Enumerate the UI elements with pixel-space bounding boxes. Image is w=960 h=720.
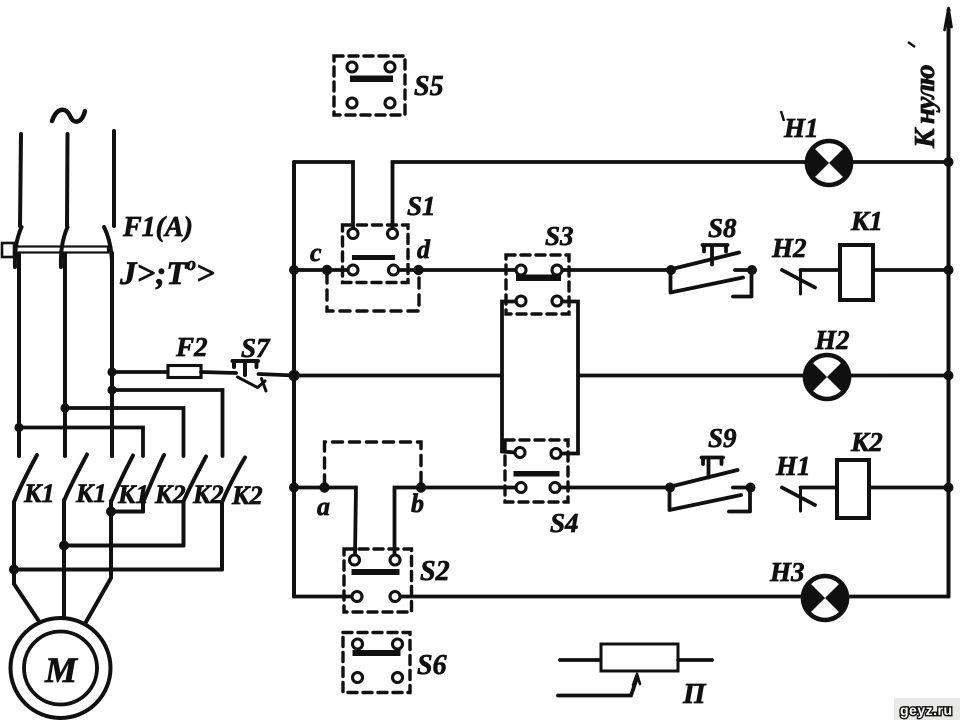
S5 pin 3 bbox=[347, 98, 357, 108]
svg-text:М: М bbox=[44, 650, 79, 690]
svg-text:c: c bbox=[310, 238, 322, 267]
contact K2c blade bbox=[222, 458, 245, 503]
S8 right bracket bbox=[733, 270, 752, 297]
svg-text:К1: К1 bbox=[117, 480, 149, 509]
wire contact H1 to coil K2 bbox=[801, 486, 838, 490]
S1 pin 1 bbox=[348, 229, 358, 239]
wire phase L3 to fuse F2 bbox=[112, 370, 168, 374]
switch S3 dashed housing bbox=[506, 255, 569, 314]
wire contact K1b to motor bbox=[62, 500, 66, 621]
svg-text:S6: S6 bbox=[417, 650, 447, 681]
S6 pin 4 bbox=[393, 673, 403, 683]
switch S7 actuator T-bar bbox=[233, 361, 259, 375]
wire link K2b to phase L2 bbox=[64, 544, 184, 548]
svg-text:S7: S7 bbox=[241, 333, 271, 363]
pushbutton S8 right terminal bbox=[747, 265, 757, 275]
contact H2 stop tick bbox=[799, 270, 802, 294]
contact K1a blade bbox=[14, 455, 37, 502]
node b bbox=[416, 482, 426, 492]
svg-text:d: d bbox=[417, 235, 431, 264]
S9 right bracket bbox=[729, 488, 750, 512]
row2 wire S3 to S8 bbox=[562, 268, 666, 272]
right bus arrow head bbox=[945, 8, 952, 30]
wire link K2c to phase L1 bbox=[14, 568, 222, 572]
row2 wire S1 to S3 bbox=[399, 268, 517, 272]
S3 contact bar bbox=[516, 275, 561, 282]
svg-text:geyz.ru: geyz.ru bbox=[900, 702, 953, 718]
node row4 left bus bbox=[289, 483, 299, 493]
phase line L2 bbox=[65, 134, 68, 456]
contact H1 blade (row4) bbox=[782, 488, 815, 506]
wire link K1c-K2a bbox=[111, 510, 143, 514]
coil K1 bbox=[840, 245, 873, 300]
S1 pin 4 bbox=[389, 265, 399, 275]
lamp H2 bbox=[804, 355, 850, 399]
AC source tilde symbol bbox=[52, 110, 85, 122]
S1 pin 3 bbox=[348, 265, 358, 275]
row3 wire block to lamp H2 and bus bbox=[578, 374, 949, 378]
left control bus bbox=[292, 162, 296, 597]
breaker F1 pole blade 2 bbox=[61, 227, 68, 267]
switch block S5 dashed housing bbox=[334, 56, 405, 115]
svg-text:К2: К2 bbox=[231, 481, 263, 510]
S6 pin 3 bbox=[353, 673, 363, 683]
node row4 right bus bbox=[944, 483, 954, 493]
wire contact K2b down bbox=[182, 501, 186, 546]
svg-text:К2: К2 bbox=[192, 480, 224, 509]
S8 wire stub bbox=[735, 268, 752, 272]
svg-text:S2: S2 bbox=[420, 556, 450, 587]
S6 contact bar bbox=[353, 650, 401, 656]
S2 pin 3 bbox=[352, 592, 362, 602]
S4 pin 2 bbox=[551, 449, 561, 459]
wire contact K2c down bbox=[220, 502, 224, 570]
svg-text:S9: S9 bbox=[708, 423, 737, 453]
S5 pin 4 bbox=[385, 98, 395, 108]
wire contact K1c down bbox=[85, 501, 112, 625]
switch S2 dashed housing bbox=[344, 549, 412, 612]
S3 pin 3 bbox=[516, 296, 526, 306]
a-b outer dashed boundary bbox=[325, 442, 422, 485]
S8 upper blade bbox=[672, 253, 739, 270]
contact H1 stop tick bbox=[799, 488, 802, 512]
row1 wire S1 to lamp H1 and bus bbox=[393, 162, 949, 229]
S5 contact bar bbox=[350, 76, 393, 83]
contact K1c blade bbox=[111, 456, 133, 503]
svg-text:К2: К2 bbox=[850, 427, 883, 457]
fuse F2 bbox=[168, 366, 201, 378]
row4 wire S2 branch to S4 bbox=[395, 488, 517, 556]
potentiometer P bbox=[558, 644, 712, 696]
S2 pin 4 bbox=[390, 592, 400, 602]
wire S3 left pin down to S4 bbox=[502, 302, 516, 453]
wire switch S7 to left bus bbox=[259, 374, 296, 376]
S9 actuator bbox=[702, 458, 724, 478]
S9 lower blade assembly bbox=[670, 488, 742, 511]
svg-text:S5: S5 bbox=[414, 71, 444, 102]
breaker F1 end box bbox=[2, 243, 14, 257]
node phase L3 fuse tap bbox=[107, 367, 116, 376]
contact K1b blade bbox=[64, 455, 87, 502]
node phase L2 tap bbox=[60, 403, 69, 412]
wire fuse F2 to switch S7 bbox=[201, 372, 236, 373]
svg-text:J>;To>: J>;To> bbox=[119, 254, 215, 292]
node phase L3 lower tap bbox=[107, 385, 116, 394]
svg-text:Н2: Н2 bbox=[771, 233, 807, 263]
node link K2c bbox=[9, 565, 19, 575]
node c bbox=[322, 265, 332, 275]
svg-text:S1: S1 bbox=[407, 191, 436, 221]
contact H2 blade (row2) bbox=[782, 270, 815, 288]
phase line L1 bbox=[19, 134, 21, 456]
tick above H1 bbox=[781, 111, 784, 121]
node a bbox=[319, 482, 329, 492]
svg-text:П: П bbox=[682, 678, 707, 710]
svg-text:S3: S3 bbox=[545, 221, 574, 251]
row2 wire bus to S1 lower pin bbox=[294, 268, 348, 272]
right control bus bbox=[947, 10, 951, 597]
svg-text:К1: К1 bbox=[75, 479, 107, 508]
S3 pin 4 bbox=[552, 296, 562, 306]
S4 pin 4 bbox=[550, 483, 560, 493]
S6 pin 2 bbox=[393, 639, 403, 649]
breaker F1 pole blade 3 bbox=[104, 227, 112, 262]
svg-text:S8: S8 bbox=[708, 213, 737, 243]
svg-text:Н2: Н2 bbox=[814, 325, 850, 355]
node d bbox=[413, 265, 423, 275]
tick above K nulyu bbox=[908, 42, 915, 47]
row4 wire S4 to S9 bbox=[560, 486, 665, 490]
S1 outer dashed boundary bbox=[327, 273, 419, 311]
wire phase L3 tap to contact K2c bbox=[112, 390, 223, 456]
node row3 left bus bbox=[288, 370, 299, 381]
breaker F1 pole blade 1 bbox=[15, 227, 22, 267]
svg-text:К2: К2 bbox=[154, 480, 186, 509]
contact K2a blade bbox=[143, 455, 164, 503]
wire phase L2 tap to contact K2b bbox=[65, 408, 184, 456]
wire contact K1a to motor bbox=[14, 502, 41, 624]
S4 pin 1 bbox=[515, 448, 525, 458]
contact K2b blade bbox=[184, 457, 207, 502]
svg-text:К1: К1 bbox=[850, 206, 883, 236]
S9 upper blade bbox=[671, 470, 738, 487]
node row2 right bus bbox=[944, 265, 954, 275]
motor M outer circle bbox=[11, 618, 111, 718]
S3 pin 1 bbox=[516, 265, 526, 275]
S9 wire stub bbox=[733, 486, 751, 490]
wire contact K2a stub bbox=[141, 503, 145, 512]
switch block S6 dashed housing bbox=[343, 633, 410, 693]
row3 wire bus to block bbox=[294, 374, 502, 378]
pushbutton S8 left terminal bbox=[666, 265, 676, 275]
S5 pin 2 bbox=[385, 62, 395, 72]
svg-text:К нулю: К нулю bbox=[909, 65, 941, 149]
row5 wire bus to S2 bbox=[294, 595, 352, 599]
lamp H3 bbox=[802, 576, 848, 620]
row1 wire left branch to S1 bbox=[294, 162, 353, 229]
motor M inner circle bbox=[24, 632, 97, 705]
S5 pin 1 bbox=[347, 62, 357, 72]
S8 lower blade assembly bbox=[671, 270, 744, 293]
svg-text:Н3: Н3 bbox=[769, 557, 805, 587]
S2 pin 2 bbox=[390, 555, 400, 565]
switch S7 blade bbox=[238, 377, 267, 391]
node link K1c-K2a bbox=[106, 507, 116, 517]
S3 pin 2 bbox=[552, 265, 562, 275]
S4 contact bar bbox=[514, 471, 560, 477]
node row2 left bus bbox=[289, 265, 299, 275]
lamp H1 bbox=[806, 141, 852, 185]
svg-text:К1: К1 bbox=[23, 479, 55, 508]
svg-text:F1(A): F1(A) bbox=[122, 212, 193, 243]
svg-text:Н1: Н1 bbox=[775, 451, 811, 481]
row4 wire bus to S2 branch bbox=[294, 488, 356, 556]
S8 actuator bbox=[703, 245, 728, 265]
svg-text:Н1: Н1 bbox=[783, 113, 819, 143]
S2 pin 1 bbox=[350, 555, 360, 565]
S4 pin 3 bbox=[516, 483, 526, 493]
S1 contact bar bbox=[352, 255, 395, 260]
row5 wire S2 to lamp H3 and bus bbox=[400, 595, 949, 599]
wire phase L1 tap to contact K2a bbox=[19, 428, 143, 457]
watermark geyz.ru bbox=[894, 698, 960, 720]
wire S3 right pin down to S4 bbox=[561, 302, 578, 454]
node row1 right bus bbox=[944, 157, 954, 167]
pushbutton S9 right terminal bbox=[746, 483, 756, 493]
switch S4 dashed housing bbox=[505, 440, 568, 502]
breaker F1 crossbar bbox=[6, 247, 108, 253]
pushbutton S9 left terminal bbox=[665, 483, 675, 493]
coil K2 bbox=[837, 460, 869, 518]
S1 pin 2 bbox=[388, 229, 398, 239]
wire coil K1 to bus bbox=[873, 268, 949, 272]
svg-text:F2: F2 bbox=[175, 332, 208, 362]
svg-text:S4: S4 bbox=[550, 508, 579, 538]
node link K2b bbox=[59, 541, 69, 551]
switch S1 dashed housing bbox=[343, 225, 409, 283]
svg-text:a: a bbox=[317, 492, 330, 521]
S6 pin 1 bbox=[353, 639, 363, 649]
wire coil K2 to bus bbox=[869, 486, 949, 490]
node phase L1 tap bbox=[14, 423, 23, 432]
svg-text:b: b bbox=[411, 489, 424, 518]
S2 contact bar bbox=[352, 569, 400, 575]
phase line L3 bbox=[112, 131, 114, 456]
wire contact H2 to coil K1 bbox=[801, 268, 841, 272]
node row3 right bus bbox=[944, 371, 954, 381]
